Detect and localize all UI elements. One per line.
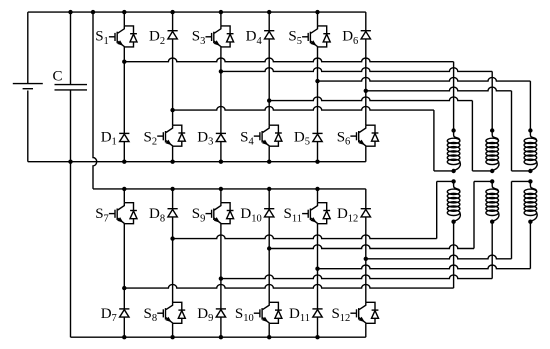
node lower leg 1 output junction xyxy=(122,286,126,290)
diode D11 xyxy=(312,308,322,310)
node upper leg 3 output junction xyxy=(219,69,223,73)
wire lower leg 2 emitter to rail xyxy=(172,323,174,337)
wire phase line from lower leg 3 (S9/D9) xyxy=(221,275,492,279)
wire upper leg 4 emitter to rail xyxy=(268,146,270,162)
junction lower bottom rail / leg 2 xyxy=(170,335,174,339)
diode D5 xyxy=(312,132,322,134)
transistor S11 (IGBT with antiparallel diode) xyxy=(318,203,327,211)
wire lower leg 6 midpoint xyxy=(365,217,367,302)
junction mid rail / capacitor xyxy=(68,160,72,164)
node phase winding 1 top terminal xyxy=(451,128,455,132)
capacitor C bottom lead wire xyxy=(70,90,72,161)
junction mid rail / upper leg 1 xyxy=(122,160,126,164)
wire lower leg 5 collector xyxy=(317,189,319,203)
diode D1 xyxy=(119,132,129,134)
junction lower top rail / leg 1 xyxy=(122,187,126,191)
wire phase line from lower leg 6 (D12/S12) xyxy=(366,255,512,259)
diode D2 xyxy=(168,30,178,32)
diode D12 xyxy=(361,208,371,210)
inductor phase winding 5 xyxy=(492,181,498,191)
wire upper leg 2 midpoint xyxy=(172,39,174,125)
wire lower bridge bottom rail xyxy=(71,336,366,338)
wire lower leg 2 cathode xyxy=(172,189,174,209)
junction mid rail / upper leg 2 xyxy=(170,160,174,164)
battery V1 positive lead wire xyxy=(27,12,29,83)
junction lower top rail / leg 4 xyxy=(267,187,271,191)
wire upper leg 6 midpoint xyxy=(365,39,367,125)
wire phase line from lower leg 4 (D10/S10) xyxy=(269,245,474,249)
wire upper leg 6 emitter to rail xyxy=(365,146,367,162)
wire phase line from upper leg 3 (S3/D3) xyxy=(221,68,492,72)
diode D7 xyxy=(119,308,129,310)
wire phase line from lower leg 5 (S11/D11) xyxy=(318,265,531,269)
node upper leg 1 output junction xyxy=(122,60,126,64)
node phase winding 3 top terminal xyxy=(528,128,532,132)
wire upper leg 6 cathode xyxy=(365,12,367,31)
junction mid rail / upper leg 5 xyxy=(315,160,319,164)
transistor S10 (IGBT with antiparallel diode) xyxy=(269,302,278,310)
wire upper leg 5 diode anode to rail xyxy=(317,142,319,162)
diode D8 xyxy=(168,208,178,210)
wire upper leg 2 cathode xyxy=(172,12,174,31)
node phase winding 4 top terminal xyxy=(451,179,455,183)
junction lower bottom rail / leg 5 xyxy=(315,335,319,339)
wire lower leg 4 emitter to rail xyxy=(268,323,270,337)
node phase winding 2 bottom terminal xyxy=(490,169,494,173)
junction lower top rail / leg 2 xyxy=(170,187,174,191)
node lower leg 4 output junction xyxy=(267,246,271,250)
wire lower leg 4 cathode xyxy=(268,189,270,209)
wire lower leg 3 diode anode to rail xyxy=(220,317,222,337)
transistor S12 (IGBT with antiparallel diode) xyxy=(366,302,375,310)
wire phase winding 1 top lead xyxy=(453,62,455,131)
wire upper leg 1 diode anode to rail xyxy=(123,142,125,162)
node phase winding 4 bottom terminal xyxy=(451,220,455,224)
diode D3 xyxy=(216,132,226,134)
wire upper leg 4 midpoint xyxy=(268,39,270,125)
wire phase line from lower leg 1 (S7/D7) xyxy=(124,284,453,288)
junction top rail / capacitor xyxy=(68,10,72,14)
node phase winding 6 bottom terminal xyxy=(528,220,532,224)
wire phase line from upper leg 1 (S1/D1) xyxy=(124,58,453,62)
wire lower leg 3 midpoint xyxy=(220,224,222,309)
svg-text:C: C xyxy=(52,68,62,84)
node lower leg 5 output junction xyxy=(315,267,319,271)
wire phase line from upper leg 6 (D6/S6) xyxy=(366,87,512,91)
wire lower bridge top rail xyxy=(93,188,366,190)
wire dc- link vertical xyxy=(70,162,72,338)
node phase winding 3 bottom terminal xyxy=(528,169,532,173)
wire upper leg 3 midpoint xyxy=(220,47,222,133)
inductor phase winding 4 xyxy=(454,181,460,191)
inductor phase winding 6 xyxy=(530,181,536,191)
wire phase winding 3 top lead xyxy=(529,81,531,130)
diode D6 xyxy=(361,30,371,32)
junction lower bottom rail / leg 3 xyxy=(219,335,223,339)
junction lower bottom rail / leg 4 xyxy=(267,335,271,339)
wire phase line from upper leg 5 (S5/D5) xyxy=(318,77,531,81)
junction top rail / leg 2 xyxy=(170,10,174,14)
wire lower leg 6 emitter to rail xyxy=(365,323,367,337)
junction lower top rail / leg 5 xyxy=(315,187,319,191)
wire upper leg 4 cathode xyxy=(268,12,270,31)
wire phase line from lower leg 2 (D8/S8) xyxy=(173,235,437,239)
capacitor C top lead wire xyxy=(70,12,72,84)
inductor phase winding 1 xyxy=(454,131,460,141)
wire upper leg 5 collector xyxy=(317,12,319,26)
transistor S5 (IGBT with antiparallel diode) xyxy=(318,26,327,34)
junction mid rail / upper leg 3 xyxy=(219,160,223,164)
wire upper leg 1 collector xyxy=(123,12,125,26)
node upper leg 4 output junction xyxy=(267,98,271,102)
transistor S8 (IGBT with antiparallel diode) xyxy=(173,302,182,310)
node phase winding 2 top terminal xyxy=(490,128,494,132)
node upper leg 5 output junction xyxy=(315,79,319,83)
node lower leg 2 output junction xyxy=(170,236,174,240)
diode D9 xyxy=(216,308,226,310)
wire lower leg 4 midpoint xyxy=(268,217,270,302)
node upper leg 2 output junction xyxy=(170,108,174,112)
transistor S6 (IGBT with antiparallel diode) xyxy=(366,125,375,133)
junction top rail / leg 3 xyxy=(219,10,223,14)
battery V1 negative lead wire xyxy=(27,91,29,162)
inductor phase winding 2 xyxy=(492,131,498,141)
transistor S2 (IGBT with antiparallel diode) xyxy=(173,125,182,133)
junction lower top rail / leg 3 xyxy=(219,187,223,191)
wire phase line from upper leg 4 (D4/S4) xyxy=(269,97,472,101)
node lower leg 6 output junction xyxy=(364,257,368,261)
wire lower leg 1 diode anode to rail xyxy=(123,317,125,337)
transistor S3 (IGBT with antiparallel diode) xyxy=(221,26,230,34)
battery V1 xyxy=(13,83,43,85)
transistor S1 (IGBT with antiparallel diode) xyxy=(124,26,133,34)
wire lower leg 6 cathode xyxy=(365,189,367,209)
wire upper leg 3 collector xyxy=(220,12,222,26)
wire upper leg 3 diode anode to rail xyxy=(220,142,222,162)
junction lower bottom rail / leg 1 xyxy=(122,335,126,339)
wire lower leg 1 midpoint xyxy=(123,224,125,309)
wire lower leg 3 collector xyxy=(220,189,222,203)
junction top rail / leg 1 xyxy=(122,10,126,14)
wire lower leg 1 collector xyxy=(123,189,125,203)
capacitor C xyxy=(55,84,88,86)
wire lower leg 5 midpoint xyxy=(317,224,319,309)
node phase winding 1 bottom terminal xyxy=(451,169,455,173)
junction mid rail / upper leg 4 xyxy=(267,160,271,164)
node phase winding 5 bottom terminal xyxy=(490,220,494,224)
wire upper leg 1 midpoint xyxy=(123,47,125,133)
node lower leg 3 output junction xyxy=(219,276,223,280)
wire phase winding 2 top lead xyxy=(491,71,493,130)
node phase winding 5 top terminal xyxy=(490,179,494,183)
inductor phase winding 3 xyxy=(530,131,536,141)
transistor S4 (IGBT with antiparallel diode) xyxy=(269,125,278,133)
wire lower leg 5 diode anode to rail xyxy=(317,317,319,337)
transistor S7 (IGBT with antiparallel diode) xyxy=(124,203,133,211)
transistor S9 (IGBT with antiparallel diode) xyxy=(221,203,230,211)
diode D10 xyxy=(264,208,274,210)
wire dc- mid rail (upper bridge bottom) xyxy=(28,161,366,163)
diode D4 xyxy=(264,30,274,32)
wire dc+ top rail xyxy=(28,11,366,13)
node phase winding 6 top terminal xyxy=(528,179,532,183)
junction top rail / leg 5 xyxy=(315,10,319,14)
wire phase line from upper leg 2 (D2/S2) xyxy=(173,106,434,110)
node upper leg 6 output junction xyxy=(364,89,368,93)
wire dc+ link vertical (hops over dc- rail) xyxy=(93,12,97,189)
wire lower leg 2 midpoint xyxy=(172,217,174,302)
wire upper leg 5 midpoint xyxy=(317,47,319,133)
junction top rail / dc+ link xyxy=(91,10,95,14)
junction top rail / leg 4 xyxy=(267,10,271,14)
wire upper leg 2 emitter to rail xyxy=(172,146,174,162)
